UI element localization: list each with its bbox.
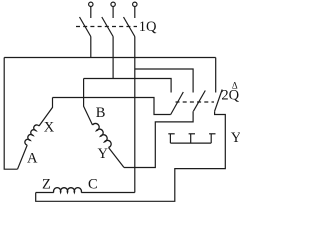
svg-text:X: X [44, 120, 55, 136]
2Q star contact 1 prong [169, 134, 171, 143]
wire pole1 drop to bus [90, 37, 92, 58]
svg-text:1Q: 1Q [139, 19, 157, 35]
wire phase2 branch to winding B and 2Q contact 1 [84, 79, 172, 93]
switch 2Q blade 2 [193, 91, 205, 112]
2Q star contact 3 prong [210, 134, 212, 143]
switch 2Q linkage (dashed) [176, 101, 215, 103]
winding A-X lower lead [18, 145, 28, 169]
winding B-Y lower lead [109, 148, 125, 168]
wire 2Q delta contact 3 feeder [215, 58, 217, 93]
winding A-X upper lead [39, 98, 53, 127]
wire phase3 branch to 2Q contact 2 [135, 69, 193, 93]
wire left rail to winding A [4, 58, 17, 170]
winding B-Y coil [93, 123, 112, 147]
svg-text:A: A [27, 151, 38, 167]
wire winding Z end to 2Q blade3 pivot [36, 111, 226, 201]
switch 1Q pole 1 terminal [89, 2, 93, 6]
winding Z-C left lead [36, 192, 54, 194]
winding B-Y upper lead [84, 79, 93, 126]
wire pole3 drop to winding C [134, 37, 136, 193]
switch 2Q blade 1 [171, 92, 184, 115]
2Q star contact 2 prong [190, 134, 192, 143]
svg-text:B: B [96, 105, 106, 121]
switch 1Q pole 3 blade [124, 17, 135, 37]
2Q star contact 3 tick [209, 133, 215, 135]
switch 1Q linkage (dashed) [76, 26, 137, 28]
wire pole2 drop [112, 37, 114, 79]
winding Z-C coil [54, 188, 82, 193]
switch 1Q pole 2 terminal [111, 2, 115, 6]
2Q star contact 2 tick [189, 133, 195, 135]
wire pole3 top lead [134, 7, 136, 19]
wire pole2 top lead [112, 7, 114, 19]
switch 1Q pole 3 terminal [133, 2, 137, 6]
switch 2Q blade 3 [215, 90, 223, 112]
wire winding Y end to 2Q blade2 pivot [124, 111, 193, 167]
2Q star contact 1 tick [168, 133, 174, 135]
svg-text:2Q: 2Q [221, 87, 239, 103]
switch 1Q pole 2 blade [102, 17, 113, 37]
wire winding X top to 2Q blade1 pivot [53, 98, 171, 115]
wire bus phase1 [4, 57, 216, 59]
svg-text:Y: Y [231, 130, 240, 146]
svg-text:C: C [88, 177, 98, 193]
winding Z-C right lead [81, 192, 135, 194]
winding A-X coil [25, 125, 39, 145]
wire pole1 top lead [90, 7, 92, 19]
svg-text:Z: Z [42, 177, 51, 193]
svg-text:Y: Y [98, 146, 109, 162]
wire star point bus [170, 142, 211, 144]
switch 1Q pole 1 blade [80, 17, 91, 37]
